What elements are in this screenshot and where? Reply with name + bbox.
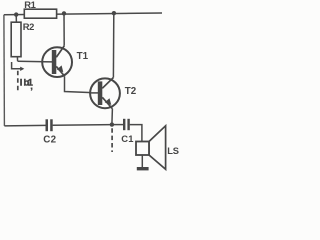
wire T1 emitter to T2 base [65,76,99,93]
transistor T2 [90,78,120,109]
current arrow Ib1 [12,62,25,71]
wire top rail [4,13,162,15]
wire T1 collector [63,13,65,45]
svg-text:T2: T2 [125,86,137,97]
wire R2 top lead [15,15,17,23]
wire bottom rail middle [53,124,112,127]
node junction T2 collector/top rail [112,11,116,15]
wire speaker bottom lead [141,155,143,167]
transistor T1 [42,46,72,77]
svg-text:,: , [30,81,33,92]
wire C1 to speaker corner [130,125,142,142]
wire node to C1 [112,124,123,126]
svg-text:C1: C1 [121,133,133,144]
wire left side [3,15,6,126]
svg-text:C2: C2 [43,135,56,146]
ground [137,167,149,170]
node junction T1 collector/top rail [62,11,66,15]
node junction R2/top rail [14,12,18,16]
wire T2 emitter [111,109,114,125]
svg-text:R1: R1 [24,0,35,10]
resistor R2 [11,22,21,57]
wire R2 bottom lead [16,57,18,62]
wire bottom rail left [4,124,45,127]
dashed line below bottom node [111,128,113,152]
loudspeaker LS [136,126,166,170]
resistor R1 [24,9,56,18]
capacitor C2 [46,119,53,131]
capacitor C1 [123,119,130,130]
wire base T1 [18,60,53,63]
wire T2 collector [112,13,114,77]
node junction emitter T2/bottom rail [110,122,114,126]
svg-text:R2: R2 [23,21,34,32]
svg-text:T1: T1 [77,51,89,62]
dashed line below base arrow [17,71,19,92]
svg-text:LS: LS [167,146,178,156]
